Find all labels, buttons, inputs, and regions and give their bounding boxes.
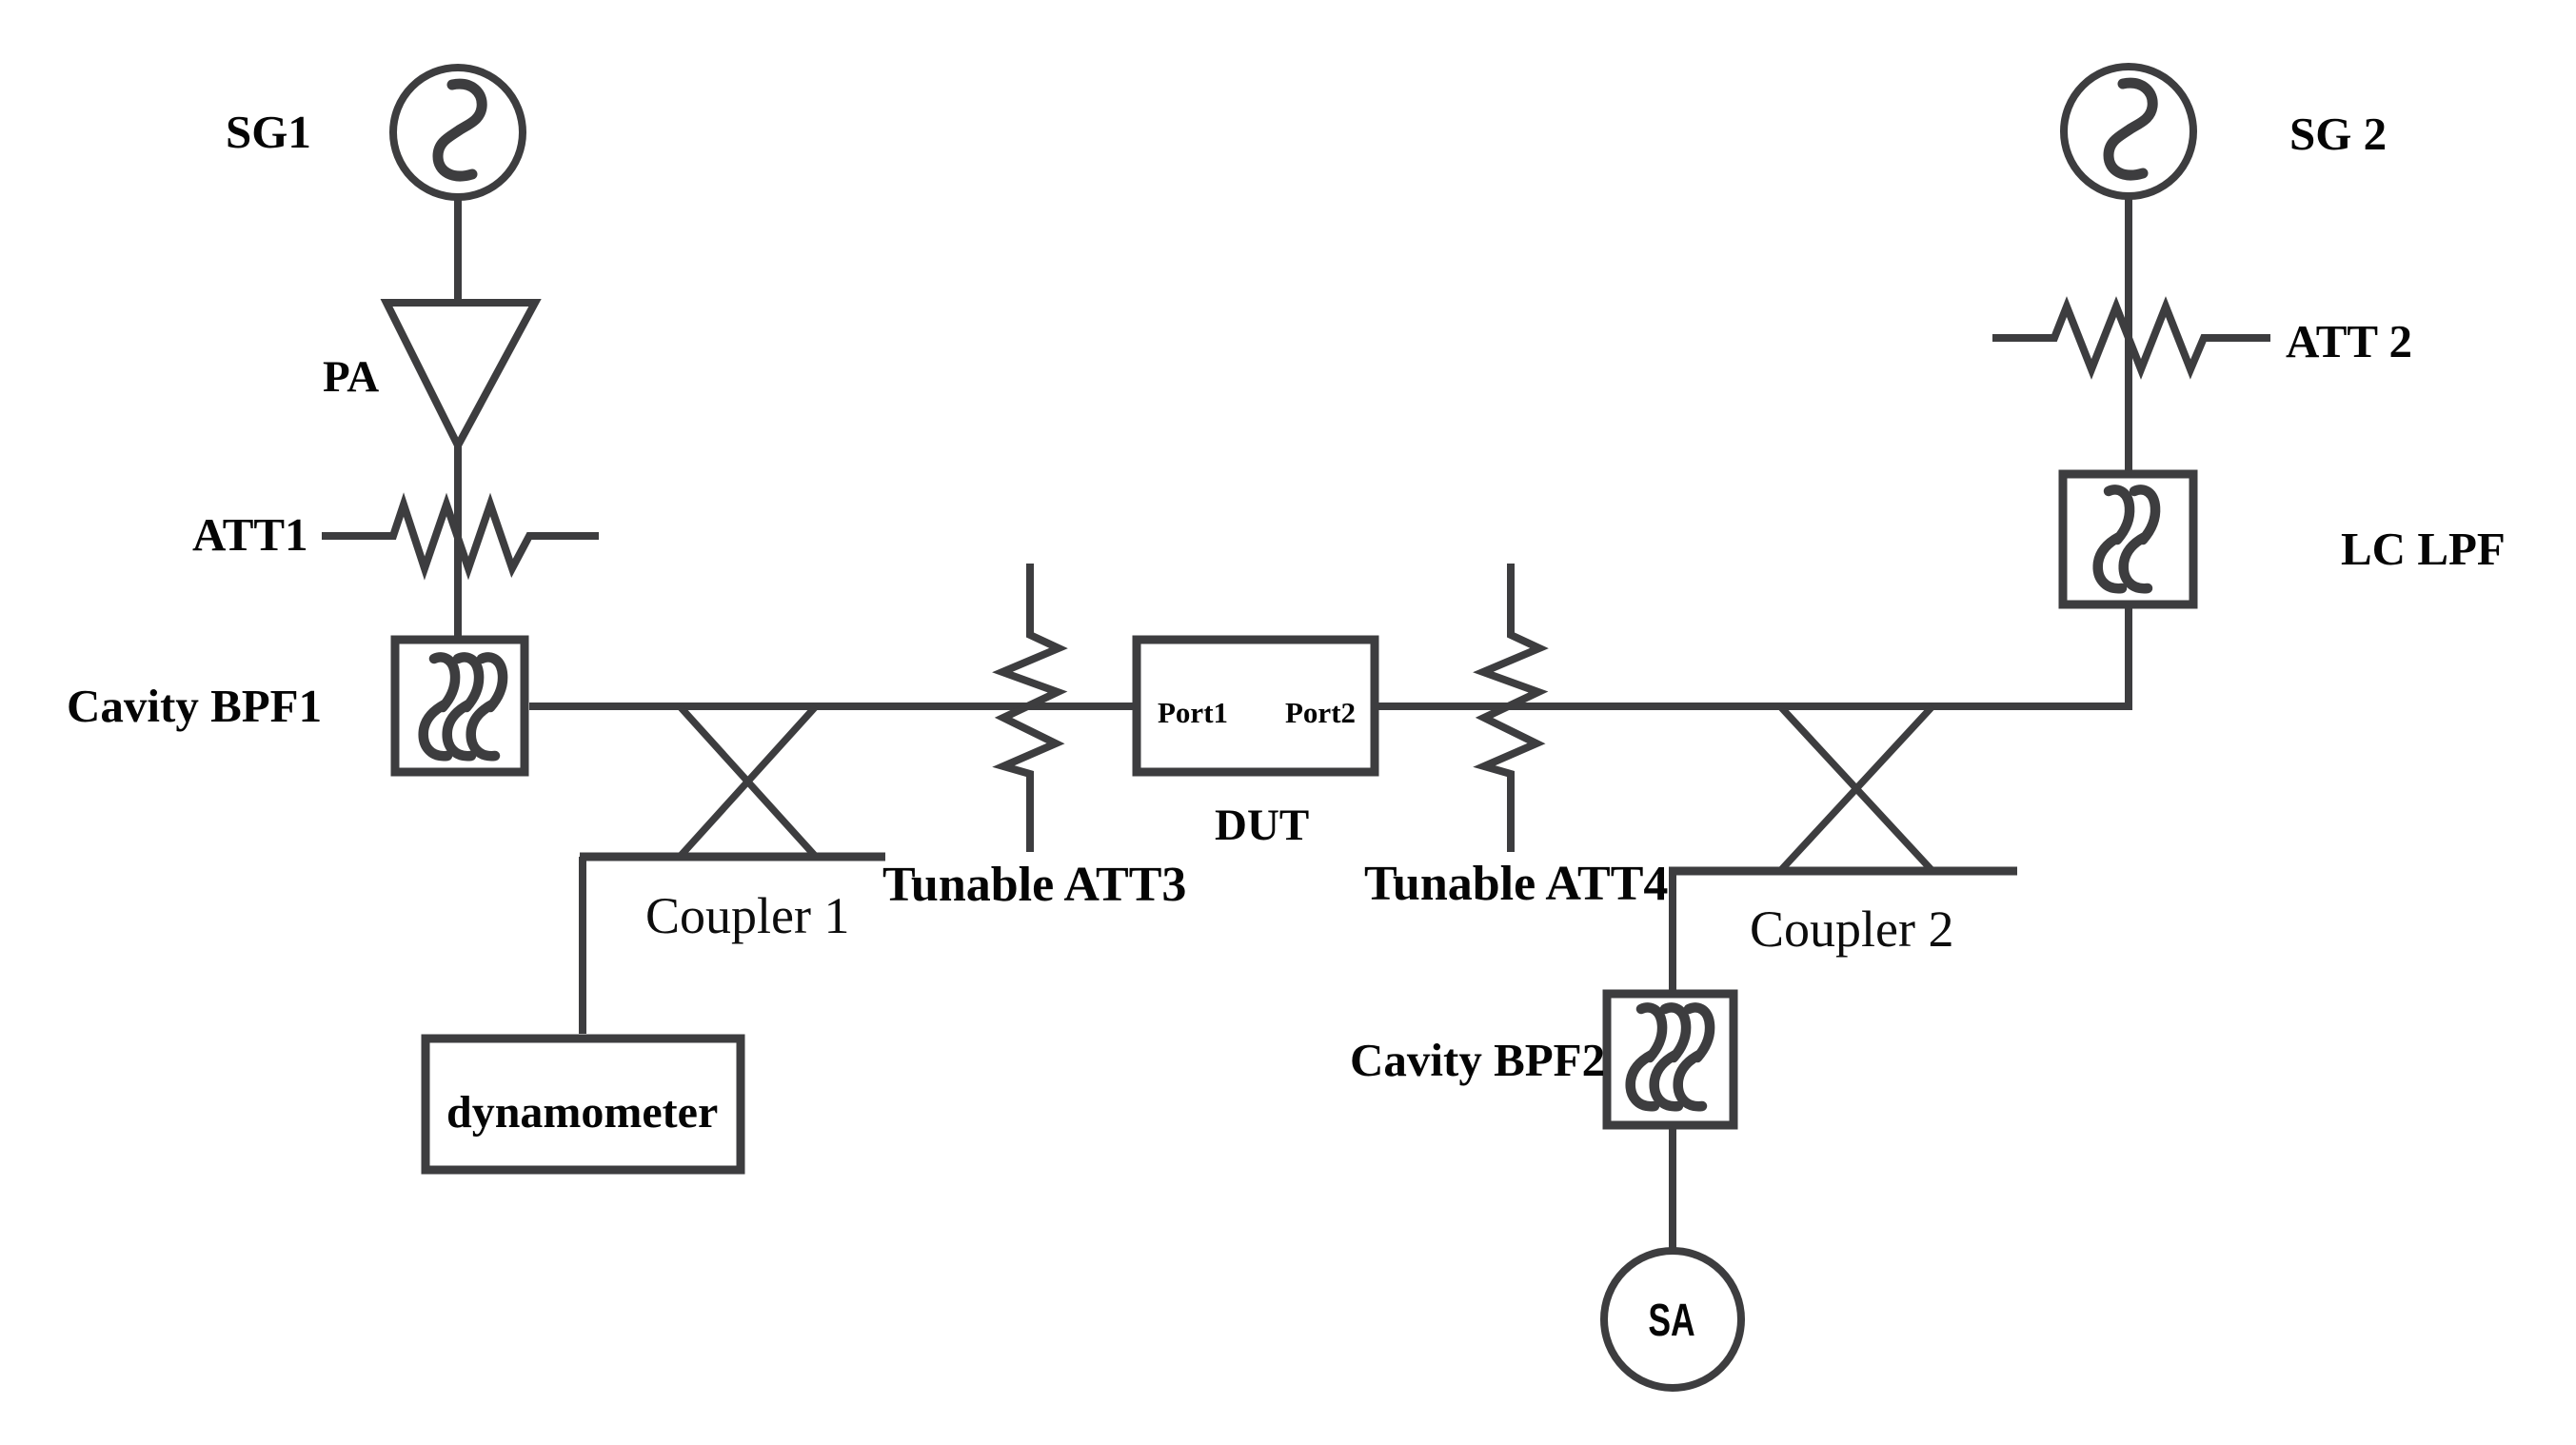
- svg-text:Tunable ATT4: Tunable ATT4: [1364, 857, 1668, 911]
- wire Cavity BPF2 to SA: [1669, 1125, 1676, 1254]
- svg-text:Tunable ATT3: Tunable ATT3: [882, 858, 1186, 912]
- svg-text:Port1: Port1: [1158, 696, 1228, 729]
- svg-text:SG1: SG1: [226, 106, 311, 158]
- wire SG2 to LC LPF: [2125, 199, 2132, 474]
- svg-text:Cavity BPF2: Cavity BPF2: [1350, 1034, 1605, 1086]
- attenuator Tunable ATT4: [1483, 564, 1539, 852]
- attenuator ATT1: [322, 505, 599, 568]
- wire SG1 to PA: [454, 200, 462, 307]
- wire main line right: [1378, 703, 2132, 710]
- filter Cavity BPF1: [395, 640, 525, 772]
- wire Coupler 2 to Cavity BPF2: [1669, 871, 1676, 990]
- svg-text:ATT 2: ATT 2: [2286, 315, 2412, 367]
- coupler Coupler 1: [580, 706, 885, 857]
- dynamometer box: [426, 1039, 741, 1170]
- svg-text:Coupler 1: Coupler 1: [645, 887, 849, 944]
- spectrum analyzer SA: [1604, 1251, 1741, 1388]
- device under test DUT: [1137, 640, 1375, 772]
- filter Cavity BPF2: [1607, 994, 1734, 1125]
- attenuator Tunable ATT3: [1002, 564, 1059, 852]
- wire PA to Cavity BPF1: [454, 444, 462, 640]
- attenuator ATT 2: [1992, 307, 2270, 369]
- signal generator SG1: [393, 68, 523, 197]
- svg-text:Port2: Port2: [1285, 696, 1356, 729]
- svg-text:ATT1: ATT1: [192, 508, 308, 561]
- svg-text:Coupler 2: Coupler 2: [1750, 901, 1953, 958]
- signal generator SG2: [2064, 67, 2193, 196]
- svg-text:LC LPF: LC LPF: [2341, 523, 2506, 575]
- svg-text:Cavity BPF1: Cavity BPF1: [67, 680, 322, 732]
- sine symbol SG2: [2109, 83, 2152, 175]
- wire main line left: [529, 703, 1133, 710]
- svg-text:SA: SA: [1648, 1295, 1694, 1345]
- wire LC LPF to main line: [2125, 604, 2132, 710]
- amplifier PA: [386, 303, 535, 445]
- coupler Coupler 2: [1669, 706, 2017, 871]
- svg-text:PA: PA: [323, 352, 379, 402]
- svg-text:SG 2: SG 2: [2289, 108, 2387, 160]
- svg-text:dynamometer: dynamometer: [446, 1087, 718, 1138]
- sine symbol SG1: [438, 84, 482, 176]
- wire Coupler 1 to dynamometer: [579, 857, 586, 1034]
- filter LC LPF: [2063, 474, 2193, 604]
- svg-text:DUT: DUT: [1215, 801, 1309, 850]
